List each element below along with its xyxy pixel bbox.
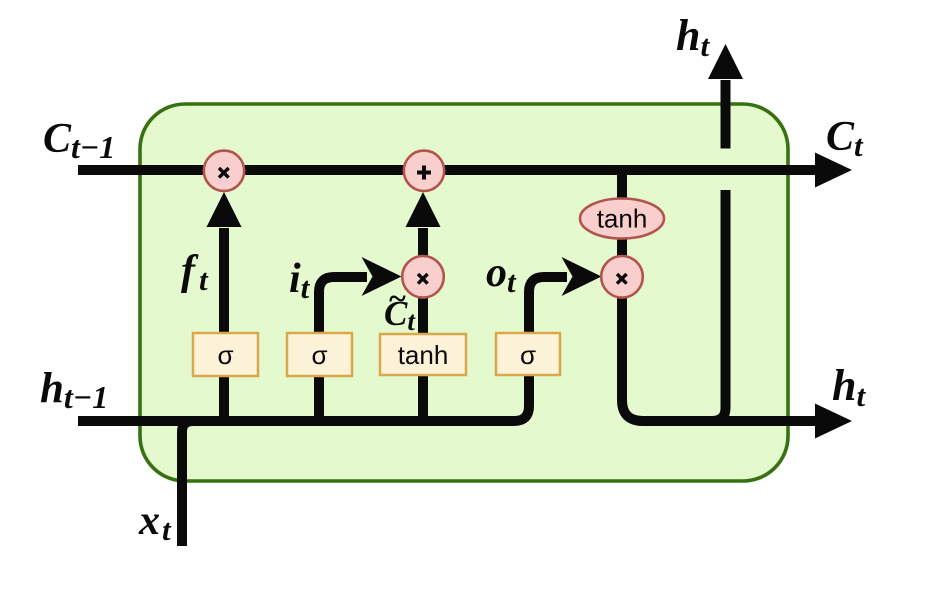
svg-text:σ: σ [217,340,233,370]
arrowhead: h_t output top [708,44,743,79]
gate: multiply (input x candidate) [402,256,444,298]
svg-text:tanh: tanh [398,340,449,370]
gate: multiply (output) [601,256,643,298]
svg-text:σ: σ [311,340,327,370]
wire: C line branch down into tanh ellipse [617,173,627,200]
LSTM cell body [140,104,788,481]
svg-text:σ: σ [520,340,536,370]
sigma box 3 (output gate) [496,333,560,375]
svg-text:tanh: tanh [597,204,648,234]
svg-text:ht: ht [832,361,866,413]
arrowhead: h_t output right [815,404,852,439]
svg-text:Ct−1: Ct−1 [43,116,115,165]
svg-text:ht: ht [676,11,710,63]
tanh ellipse on output path [580,199,664,239]
wire: h line left segment with o-gate branch elbow [78,277,567,421]
gate: multiply on C line (forget) [204,151,244,191]
sigma box 2 (input gate) [287,333,352,376]
wire: h output line right segment from multiply gate [622,297,816,421]
wire: forget gate vertical f [219,228,229,421]
label C-tilde_t [384,280,416,336]
wire: cell-state line C (top horizontal) [78,165,816,175]
svg-text:xt: xt [138,498,172,547]
arrowhead: i_t into multiply gate [362,257,402,296]
svg-text:ht−1: ht−1 [40,365,108,415]
arrowhead: f into multiply gate on C line [207,192,242,227]
gate: add on C line [404,151,444,191]
wire: h_t branch rising (below C line) [712,190,726,421]
svg-text:~: ~ [388,280,406,316]
wire: tanh ellipse to multiply gate [617,237,627,257]
tanh box (candidate) [380,334,466,375]
sigma box 1 (forget gate) [193,333,258,376]
arrowhead: C_t output right [815,153,852,188]
svg-text:Ct: Ct [826,114,864,163]
arrowhead: o_t into multiply gate [562,257,602,296]
wire: h_t branch rising (above C line, after hop gap) [721,80,731,149]
wire: multiply gate up to add gate [418,228,428,257]
arrowhead: into add gate [406,192,441,227]
wire: input gate i with elbow into multiply [319,277,367,421]
wire: x_t input rising into h line [182,421,200,546]
wire: candidate line through tanh box [418,298,428,421]
